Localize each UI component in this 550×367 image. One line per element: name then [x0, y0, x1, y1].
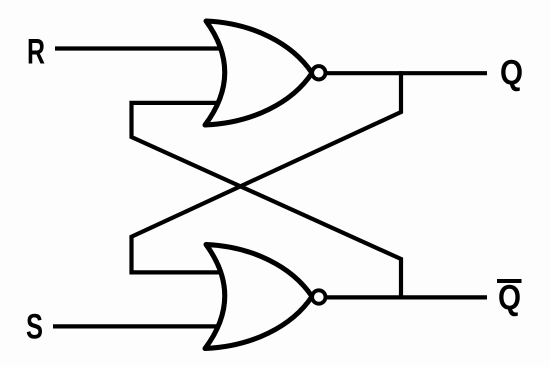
wire feedback Qbar to U1 lower input — [132, 103, 402, 298]
node Qbar junction — [399, 295, 403, 299]
node Q junction — [399, 71, 403, 75]
wire R input to U1 — [55, 46, 222, 50]
inversion bubble U2 — [312, 290, 325, 303]
NOR gate U1 body — [205, 21, 312, 125]
NOR gate U2 body — [205, 245, 312, 349]
wire U2 output to Qbar — [327, 295, 487, 299]
wire feedback Q to U2 upper input — [132, 73, 402, 272]
svg-text:R: R — [27, 33, 45, 72]
wire S input to U2 — [53, 324, 222, 328]
inversion bubble U1 — [312, 66, 325, 79]
svg-text:S: S — [26, 308, 43, 347]
wire U1 output to Q — [327, 71, 487, 75]
svg-text:Q: Q — [500, 54, 523, 93]
svg-text:Q: Q — [498, 279, 521, 318]
output label Qbar overline — [497, 279, 522, 283]
